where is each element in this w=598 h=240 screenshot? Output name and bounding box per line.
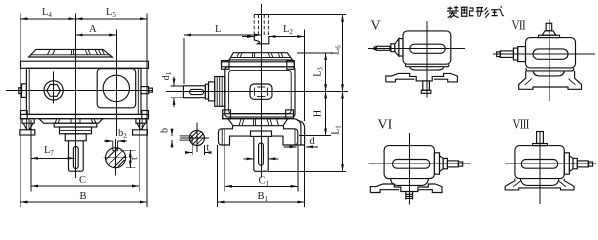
dim L xyxy=(183,38,185,84)
dim d1 xyxy=(171,85,185,87)
svg-text:VI: VI xyxy=(378,118,393,133)
svg-text:V: V xyxy=(371,19,381,34)
char xing xyxy=(476,7,489,17)
bottom flange xyxy=(21,114,149,118)
svg-text:t: t xyxy=(129,157,140,160)
body outer xyxy=(225,67,295,117)
char shi xyxy=(491,6,504,15)
inspection cover (ridged cap) xyxy=(29,49,113,57)
dim b xyxy=(171,129,173,136)
section circle b/t xyxy=(189,131,204,146)
dim L2 xyxy=(242,36,254,38)
main body xyxy=(26,68,141,114)
shaft diameter arrows xyxy=(244,158,254,160)
svg-text:H: H xyxy=(313,110,324,117)
svg-text:t: t xyxy=(207,143,210,154)
center shaft boss xyxy=(250,84,272,99)
dim L6 xyxy=(342,15,344,92)
figure V xyxy=(368,19,465,98)
output shaft with keyway xyxy=(69,141,84,171)
dim B1 xyxy=(217,145,219,207)
dim C1 xyxy=(224,129,226,192)
right back bracket xyxy=(294,119,301,145)
svg-text:L: L xyxy=(215,24,221,35)
dim d xyxy=(284,146,297,148)
vertical centerline xyxy=(260,4,262,178)
input shaft xyxy=(183,86,205,98)
dim C xyxy=(138,120,140,192)
bottom flange band with tabs xyxy=(223,114,294,119)
shaft stub above cover xyxy=(254,36,268,43)
svg-text:d: d xyxy=(310,136,316,147)
top flange with tabs xyxy=(222,62,295,67)
base with feet xyxy=(219,126,298,145)
hex plug xyxy=(44,81,63,100)
dim A xyxy=(115,30,117,137)
body inner xyxy=(229,70,292,113)
dim B xyxy=(20,201,147,203)
figure VII xyxy=(493,17,595,101)
ridged cover xyxy=(229,53,293,60)
bearing cover square xyxy=(97,69,136,108)
ribbed skirt xyxy=(228,119,288,126)
bottom flange corner tabs xyxy=(21,111,28,119)
dim L4 xyxy=(19,14,21,208)
bearing bore circle xyxy=(103,75,129,101)
svg-text:VII: VII xyxy=(512,17,526,32)
dim b2 xyxy=(104,140,113,142)
svg-text:C: C xyxy=(79,175,86,186)
svg-text:A: A xyxy=(89,24,97,35)
keyway section circle b2/t xyxy=(106,148,126,168)
svg-text:b: b xyxy=(160,128,171,133)
output boss steps xyxy=(54,123,97,127)
output shaft with keyway xyxy=(254,136,268,171)
hidden vertical shaft (dashed) xyxy=(254,15,268,37)
top shaft cap/extension line xyxy=(254,14,346,16)
ribbed skirt xyxy=(39,119,103,124)
dim L1 xyxy=(268,170,346,172)
right shaft stub xyxy=(141,87,149,94)
dim t (rotated) xyxy=(120,149,136,151)
figure VIII xyxy=(505,116,597,204)
dim L5 xyxy=(76,18,148,20)
horizontal centerline xyxy=(6,89,153,91)
dim L7 xyxy=(30,120,32,192)
left foot xyxy=(22,119,34,124)
horizontal centerline xyxy=(166,90,348,92)
char pei xyxy=(461,7,474,16)
svg-text:B: B xyxy=(80,191,87,202)
char zhuang xyxy=(447,6,459,18)
bottom shaft boss xyxy=(251,131,272,136)
dim H xyxy=(299,135,331,137)
dim t (upright) xyxy=(191,141,193,155)
vertical centerline xyxy=(75,14,77,179)
figure VI xyxy=(368,118,470,205)
left oil plug xyxy=(22,84,27,98)
svg-text:VIII: VIII xyxy=(513,116,530,132)
top flange xyxy=(21,61,149,68)
right foot xyxy=(136,119,146,124)
dim L3 xyxy=(297,52,333,54)
